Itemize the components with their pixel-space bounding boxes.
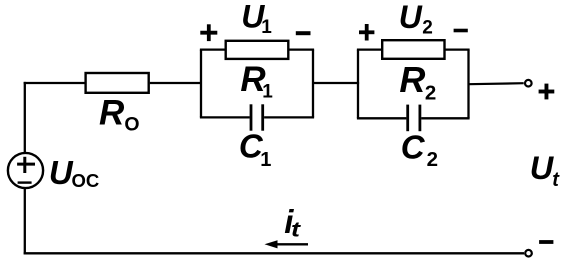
node/rail left of RC block 2	[357, 50, 359, 119]
svg-text:O: O	[124, 114, 139, 136]
label C1	[239, 128, 272, 171]
wire RC2 to positive terminal	[469, 83, 524, 84]
label minus of U2	[454, 29, 468, 33]
label minus of U1	[296, 31, 311, 35]
label U2	[399, 0, 433, 39]
label U_OC	[49, 154, 99, 191]
wire bottom branch right C1	[264, 116, 314, 118]
label i_t	[284, 203, 301, 242]
resistor R_O	[86, 73, 149, 93]
svg-text:2: 2	[425, 81, 436, 104]
label plus of U2	[359, 24, 374, 41]
svg-text:1: 1	[261, 17, 272, 38]
svg-text:R: R	[399, 59, 425, 100]
resistor R2	[382, 40, 444, 59]
wire top branch right R2	[445, 48, 470, 50]
label R2	[399, 59, 436, 104]
label minus at output	[539, 240, 553, 244]
label R1	[240, 60, 273, 102]
node/rail left of RC block 1	[200, 50, 202, 118]
wire top branch left R2	[357, 48, 382, 50]
svg-text:2: 2	[427, 148, 438, 171]
svg-text:t: t	[291, 219, 301, 242]
svg-text:2: 2	[422, 18, 433, 39]
svg-text:OC: OC	[72, 170, 100, 191]
node/rail right of RC block 1	[312, 50, 314, 118]
wire bottom branch left C1	[200, 116, 250, 118]
svg-text:1: 1	[262, 81, 273, 102]
wire bottom branch right C2	[421, 117, 469, 119]
label plus of U1	[200, 24, 217, 41]
voltage source U_OC	[8, 153, 43, 188]
wire RC1 to RC2	[313, 82, 359, 84]
wire bottom horizontal	[24, 252, 524, 254]
resistor R1	[226, 41, 289, 59]
current arrow i_t	[265, 240, 309, 248]
label C2	[401, 128, 438, 171]
svg-text:R: R	[99, 93, 125, 132]
svg-text:1: 1	[260, 149, 271, 171]
capacitor C1	[251, 104, 263, 130]
capacitor C2	[408, 105, 420, 132]
wire top branch left R1	[200, 48, 226, 50]
wire top branch right R1	[288, 48, 314, 50]
svg-text:C: C	[401, 128, 426, 165]
wire bottom branch left C2	[357, 117, 407, 119]
terminal positive (open circle)	[525, 80, 532, 87]
terminal negative (open circle)	[525, 250, 532, 257]
label plus at output	[539, 84, 555, 100]
wire top-left horizontal	[24, 82, 85, 84]
label U1	[241, 0, 272, 38]
svg-text:U: U	[49, 154, 74, 191]
svg-text:U: U	[530, 150, 555, 186]
svg-text:U: U	[399, 0, 423, 35]
label R_O	[99, 93, 140, 135]
wire left vertical upper	[24, 82, 26, 153]
node/rail right of RC block 2	[467, 50, 469, 119]
wire R_O to RC block 1	[150, 82, 202, 84]
wire left vertical lower	[24, 188, 26, 254]
label U_t	[530, 150, 560, 191]
